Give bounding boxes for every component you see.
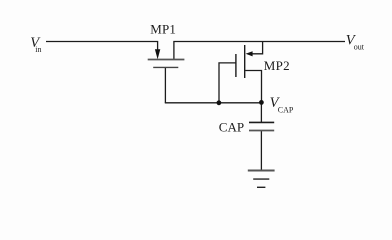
svg-text:MP1: MP1 — [150, 22, 176, 37]
svg-text:CAP: CAP — [219, 120, 244, 135]
svg-text:CAP: CAP — [278, 106, 294, 115]
svg-text:MP2: MP2 — [264, 58, 290, 73]
svg-text:out: out — [354, 43, 365, 52]
svg-text:in: in — [35, 45, 41, 54]
